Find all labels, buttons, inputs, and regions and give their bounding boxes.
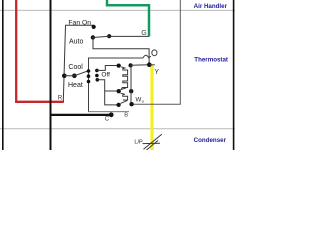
node pair1 left — [117, 63, 121, 67]
component blade tick pair B — [121, 101, 128, 104]
component blade tick pair A — [121, 87, 128, 89]
svg-text:C: C — [105, 115, 110, 122]
wire thermostat bus from fan-on elbow down to R — [63, 25, 93, 102]
svg-text:G: G — [141, 30, 146, 37]
wire right border (black, full height) — [233, 0, 235, 150]
svg-text:W: W — [136, 96, 142, 103]
svg-text:B: B — [124, 112, 128, 118]
node mode common on bus — [62, 74, 67, 79]
wire O hop over Y vertical — [143, 55, 151, 58]
node col2 off — [95, 74, 99, 78]
node C terminal — [109, 112, 114, 117]
node mode blade dot — [72, 74, 77, 79]
node col2 cool — [95, 69, 99, 73]
svg-text:Air Handler: Air Handler — [194, 3, 228, 10]
node pair A right (W terminal) — [129, 89, 133, 93]
svg-text:L/P: L/P — [134, 139, 143, 145]
node O terminal circle — [152, 50, 157, 56]
wire fan blade — [93, 36, 109, 37]
node Y junction — [147, 62, 152, 67]
wire branch to pair A — [105, 90, 119, 92]
svg-text:Heat: Heat — [68, 82, 83, 89]
wire B stub — [89, 111, 130, 113]
svg-text:Thermostat: Thermostat — [194, 57, 228, 64]
divider thermostat / condenser — [0, 128, 235, 130]
wire to G — [109, 35, 149, 37]
svg-text:Y: Y — [154, 69, 159, 76]
wire right column vertical — [130, 65, 132, 104]
wire col2 heat down to pairs A,B — [97, 80, 118, 105]
node fan-on contact — [92, 25, 96, 29]
node pair A left — [117, 89, 121, 93]
wire mode blade to Cool — [64, 71, 88, 76]
wire red R: vertical + elbow to thermostat — [16, 0, 64, 102]
svg-text:Auto: Auto — [69, 38, 84, 45]
wire black C bus (full height) — [50, 0, 52, 150]
node pair B left — [116, 103, 120, 107]
divider air handler / thermostat — [0, 9, 235, 11]
wire Y stub right — [149, 64, 155, 66]
node col1 off — [87, 74, 91, 78]
svg-text:Condenser: Condenser — [194, 137, 227, 144]
svg-text:Fan On: Fan On — [68, 20, 91, 27]
node fan auto contact — [91, 35, 95, 39]
wire pair1 to Y junction — [131, 64, 150, 66]
wire C thick from bus to C dot — [51, 114, 111, 116]
node col1 cool — [87, 69, 91, 73]
svg-text:R: R — [58, 94, 63, 101]
node pair B right — [129, 102, 133, 106]
node col1 heat — [87, 80, 91, 84]
wire W right side: up from pair B to top — [132, 0, 181, 104]
component bimetal squiggle lower — [121, 93, 128, 100]
wire green G: from top elbow down to G terminal — [107, 0, 149, 37]
node pair1 right — [128, 63, 132, 67]
wire col2 cool to pair1 left — [97, 66, 119, 71]
wire col1 vertical with top elbow to O wire — [89, 58, 144, 112]
component bimetal squiggle upper — [121, 67, 128, 89]
svg-text:Cool: Cool — [68, 64, 83, 71]
wire yellow Y: from Y junction down to bottom — [150, 65, 153, 150]
svg-text:Off: Off — [101, 71, 110, 78]
node fan blade pivot — [107, 34, 111, 38]
wire fan auto to Y vertical — [93, 38, 149, 65]
wire left border (black, full height) — [2, 0, 4, 150]
node col2 heat — [96, 78, 100, 82]
